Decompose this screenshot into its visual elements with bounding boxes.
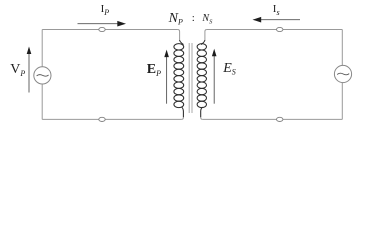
current arrow IP (to the right) [78, 21, 127, 27]
AC source (secondary load/source) [334, 65, 351, 82]
wire: secondary bottom [203, 118, 343, 120]
current arrow IS (to the left) [253, 17, 301, 23]
wire: primary top (node to transformer) [42, 29, 177, 31]
svg-text::: : [192, 12, 195, 24]
svg-text:NP: NP [168, 11, 183, 27]
wire: primary left vertical [41, 30, 43, 120]
node: secondary top terminal [277, 27, 283, 31]
node: primary bottom terminal [99, 117, 105, 121]
wire: primary bottom [42, 118, 181, 120]
AC source VP (primary) [34, 67, 51, 84]
wire: secondary right vertical [341, 30, 343, 120]
transformer T1 secondary winding lead top [205, 30, 207, 41]
svg-text:Is: Is [273, 3, 280, 17]
transformer T1 core [189, 43, 192, 113]
node: primary top terminal [99, 27, 105, 31]
transformer T1 primary winding coil [174, 40, 184, 117]
svg-text:EP: EP [147, 62, 161, 78]
node: secondary bottom terminal [277, 117, 283, 121]
svg-text:ES: ES [222, 61, 236, 77]
voltage arrow EP (up) [164, 50, 169, 104]
voltage arrow ES (up) [212, 49, 217, 104]
svg-text:IP: IP [101, 3, 110, 17]
transformer T1 primary winding lead top [178, 30, 180, 41]
wire: secondary top [207, 29, 342, 31]
transformer T1 primary winding lead bottom [181, 117, 183, 119]
voltage arrow VP (up) [27, 47, 32, 93]
svg-text:NS: NS [201, 13, 213, 26]
transformer T1 secondary winding lead bottom [201, 117, 203, 119]
svg-text:VP: VP [10, 62, 25, 78]
transformer T1 secondary winding coil [197, 40, 206, 117]
